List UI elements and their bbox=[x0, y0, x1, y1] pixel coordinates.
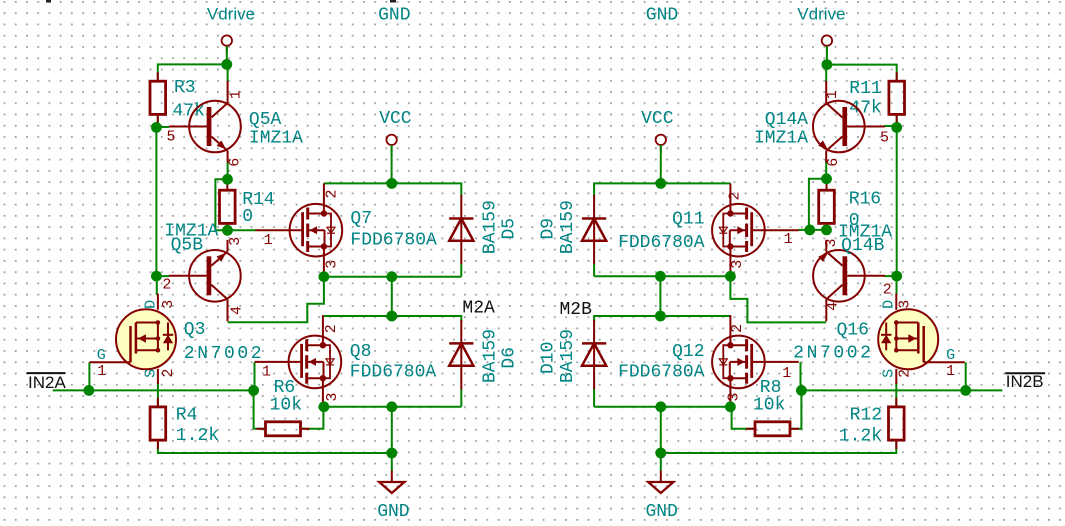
svg-text:Q14A: Q14A bbox=[765, 110, 808, 130]
wire IN2A junction up to Q8 gate bbox=[254, 362, 256, 390]
junction IN2A/Q8 gate/R6 bbox=[248, 385, 259, 396]
svg-text:3: 3 bbox=[726, 392, 743, 401]
svg-text:D6: D6 bbox=[500, 347, 520, 369]
net label M2B bbox=[560, 300, 593, 320]
junction J6' VCC node bbox=[655, 178, 666, 189]
svg-text:1: 1 bbox=[97, 363, 106, 380]
junction J6 VCC node bbox=[386, 178, 397, 189]
wire Vdrive to node J1 bbox=[226, 46, 228, 64]
ground symbol (left) bbox=[377, 471, 409, 523]
mosfet Q7 (FDD6780A) bbox=[256, 183, 437, 276]
svg-text:FDD6780A: FDD6780A bbox=[618, 363, 705, 383]
svg-text:2: 2 bbox=[162, 277, 171, 294]
junction GND node (right) bbox=[655, 448, 666, 459]
junction J4b' R16 bottom/Q14B emitter bbox=[821, 225, 832, 236]
svg-text:3: 3 bbox=[324, 260, 341, 269]
svg-text:Q14B: Q14B bbox=[841, 236, 884, 256]
power port VCC (left) bbox=[379, 109, 412, 152]
mosfet Q12 (FDD6780A) bbox=[618, 315, 799, 408]
svg-text:1: 1 bbox=[782, 365, 791, 382]
wire VCC right to node J6' bbox=[660, 145, 662, 183]
transistor Q5A bbox=[167, 81, 304, 167]
mosfet Q11 (FDD6780A) bbox=[618, 183, 799, 276]
resistor R14 bbox=[220, 181, 275, 232]
junction J5' rail/Q14B base bbox=[891, 271, 902, 282]
junction Q8 source row/GND drop bbox=[386, 401, 397, 412]
wire IN2A bbox=[53, 389, 254, 391]
svg-text:Q12: Q12 bbox=[672, 342, 704, 362]
wire jog Q7 source to Q5B collector bbox=[228, 277, 324, 323]
svg-text:4: 4 bbox=[229, 306, 246, 315]
svg-text:Q3: Q3 bbox=[184, 320, 206, 340]
wire VCC to node J6 bbox=[391, 145, 393, 183]
junction IN2B/Q16 gate bbox=[960, 385, 971, 396]
svg-text:1.2k: 1.2k bbox=[176, 426, 219, 446]
wire GND drop bbox=[391, 407, 393, 471]
svg-text:BA159: BA159 bbox=[480, 200, 500, 254]
svg-text:IN2B: IN2B bbox=[1006, 372, 1044, 391]
power port VCC (right) bbox=[641, 109, 674, 152]
net label M2A bbox=[462, 299, 495, 319]
diode D6 (BA159) bbox=[449, 320, 519, 389]
transistor Q14B bbox=[813, 223, 892, 322]
wire Q8 source row bbox=[324, 406, 461, 408]
wire J5' to Q14B base bbox=[884, 275, 897, 277]
svg-text:FDD6780A: FDD6780A bbox=[618, 233, 705, 253]
svg-text:6: 6 bbox=[825, 158, 842, 167]
wire R6 loop right bbox=[300, 407, 323, 429]
svg-text:M2A: M2A bbox=[462, 299, 495, 319]
svg-text:1: 1 bbox=[824, 90, 841, 99]
svg-text:10k: 10k bbox=[753, 396, 785, 416]
wire J5 to Q5B base bbox=[156, 275, 169, 277]
svg-text:S: S bbox=[881, 369, 898, 378]
mosfet Q8 (FDD6780A) bbox=[255, 315, 437, 408]
svg-text:G: G bbox=[946, 347, 955, 364]
wire J8' down to M2B row bbox=[659, 276, 661, 316]
wire Q7 drain to D5 (top rail) bbox=[324, 183, 461, 196]
resistor R11 bbox=[849, 72, 904, 123]
junction M2B node bbox=[655, 311, 666, 322]
junction J7' Q11 source bbox=[725, 271, 736, 282]
diode D5 (BA159) bbox=[449, 195, 519, 264]
wire jog Q11 source to Q14B collector bbox=[730, 276, 826, 322]
wire Q16 gate drop bbox=[965, 362, 967, 390]
resistor R16 bbox=[819, 181, 881, 232]
svg-text:GND: GND bbox=[378, 5, 410, 25]
wire bottom rail R4 to GND node bbox=[158, 440, 392, 453]
wire J8 down to M2A row bbox=[391, 277, 393, 316]
junction J1 Vdrive node bbox=[221, 59, 232, 70]
svg-text:R16: R16 bbox=[849, 190, 881, 210]
resistor R4 bbox=[150, 398, 219, 449]
svg-text:3: 3 bbox=[160, 300, 177, 309]
wire D6 bottom to Q8 source row bbox=[460, 389, 462, 407]
wire J2' to Q14A base bbox=[884, 125, 897, 127]
junction IN2A/Q3 gate bbox=[84, 385, 95, 396]
svg-text:2: 2 bbox=[897, 369, 914, 378]
junction J5 rail/Q5B base bbox=[151, 271, 162, 282]
svg-text:1: 1 bbox=[228, 90, 245, 99]
wire D5 bottom to bottom rail bbox=[460, 264, 462, 277]
svg-text:D: D bbox=[881, 300, 898, 309]
junction M2A node bbox=[386, 311, 397, 322]
svg-text:VCC: VCC bbox=[641, 109, 674, 129]
svg-text:FDD6780A: FDD6780A bbox=[350, 231, 437, 251]
wire J4 to Q7 gate bbox=[228, 229, 257, 231]
svg-text:R12: R12 bbox=[850, 406, 882, 426]
wire D9 bottom to bottom rail bbox=[593, 264, 595, 277]
resistor R3 bbox=[150, 72, 205, 123]
svg-text:2: 2 bbox=[729, 324, 746, 333]
wire D10 bottom to Q12 source row bbox=[593, 389, 595, 407]
junction GND node (left) bbox=[386, 448, 397, 459]
junction J8 top of M2A drop bbox=[386, 271, 397, 282]
svg-text:BA159: BA159 bbox=[558, 200, 578, 254]
svg-text:0: 0 bbox=[242, 207, 253, 227]
svg-text:S: S bbox=[142, 369, 159, 378]
svg-text:Q7: Q7 bbox=[350, 209, 372, 229]
svg-text:R4: R4 bbox=[176, 406, 198, 426]
svg-text:Q8: Q8 bbox=[350, 342, 372, 362]
wire J4' row to Q11 gate bbox=[799, 229, 810, 231]
wire R8 loop left bbox=[732, 407, 755, 429]
junction J3' Q14A emitter/R16 bbox=[821, 173, 832, 184]
wire Q12 source row bbox=[594, 406, 730, 408]
svg-text:Q5B: Q5B bbox=[171, 236, 204, 256]
wire Q5A collector to J1 bbox=[227, 64, 229, 82]
wire bypass around R16 bbox=[809, 179, 827, 230]
clipped text artifact top-left bbox=[46, 0, 51, 3]
junction J4a' bypass/Q11 gate bbox=[804, 225, 815, 236]
svg-text:2N7002: 2N7002 bbox=[184, 344, 264, 364]
svg-text:FDD6780A: FDD6780A bbox=[350, 363, 437, 383]
svg-text:10k: 10k bbox=[270, 396, 302, 416]
power port Vdrive (left) bbox=[207, 5, 255, 53]
svg-text:IMZ1A: IMZ1A bbox=[754, 129, 808, 149]
svg-text:2: 2 bbox=[160, 368, 177, 377]
svg-text:5: 5 bbox=[167, 129, 176, 146]
wire R3 bottom to node J2 bbox=[157, 115, 159, 128]
resistor R12 bbox=[839, 398, 904, 449]
wire bypass around R14 bbox=[215, 179, 227, 230]
net label IN2A bbox=[27, 373, 67, 392]
junction Q12 source row/GND drop bbox=[655, 401, 666, 412]
junction J8' top of M2B drop bbox=[655, 271, 666, 282]
svg-text:VCC: VCC bbox=[379, 109, 412, 129]
svg-text:M2B: M2B bbox=[560, 300, 593, 320]
transistor Q16 (2N7002) bbox=[793, 294, 965, 385]
svg-text:GND: GND bbox=[646, 5, 678, 25]
ground symbol (right) bbox=[645, 471, 677, 523]
svg-text:Q5A: Q5A bbox=[249, 110, 282, 130]
resistor R6 bbox=[257, 378, 310, 436]
svg-text:BA159: BA159 bbox=[480, 329, 500, 383]
svg-text:BA159: BA159 bbox=[558, 329, 578, 383]
wire J1 to R3 top bbox=[158, 64, 227, 81]
junction J7 Q7 source bbox=[319, 271, 330, 282]
wire Q3 source to R4 bbox=[157, 383, 159, 407]
wire R8 loop right bbox=[789, 390, 801, 428]
wire Vdrive right to node J1' bbox=[826, 46, 828, 65]
svg-text:3: 3 bbox=[897, 300, 914, 309]
wire J1' to R11 top bbox=[827, 65, 897, 82]
clipped text artifact top-middle bbox=[390, 0, 396, 3]
svg-text:2N7002: 2N7002 bbox=[793, 344, 873, 364]
svg-text:IN2A: IN2A bbox=[28, 373, 66, 392]
wire J5' to Q16 drain bbox=[896, 276, 898, 295]
junction IN2B/Q12 gate/R8 bbox=[796, 385, 807, 396]
transistor Q14A bbox=[754, 81, 889, 167]
svg-text:3: 3 bbox=[227, 237, 244, 246]
svg-text:47k: 47k bbox=[849, 99, 881, 119]
svg-text:5: 5 bbox=[880, 130, 889, 147]
diode D9 (BA159) bbox=[539, 195, 607, 264]
junction Q8 source node bbox=[319, 401, 330, 412]
svg-text:D5: D5 bbox=[500, 218, 520, 240]
transistor Q5B bbox=[162, 222, 245, 322]
svg-text:1: 1 bbox=[262, 364, 271, 381]
svg-text:GND: GND bbox=[377, 502, 409, 522]
svg-text:Q16: Q16 bbox=[836, 321, 868, 341]
svg-text:2: 2 bbox=[323, 324, 340, 333]
power port GND top (right, symbol off-sheet) bbox=[646, 5, 678, 25]
wire R11 bottom to node J2' bbox=[896, 115, 898, 128]
junction J2 R3/Q5A base bbox=[151, 122, 162, 133]
wire Q14A emitter to J3' bbox=[825, 161, 827, 179]
transistor Q3 (2N7002) bbox=[89, 294, 264, 385]
svg-text:2: 2 bbox=[324, 189, 341, 198]
wire Q16 source to R12 bbox=[895, 383, 897, 407]
wire Q11 drain to D9 (top rail) bbox=[594, 183, 730, 196]
wire Q5A emitter to J3 bbox=[227, 161, 229, 179]
wire GND drop (right) bbox=[660, 407, 662, 471]
wire Q7 source row bbox=[324, 276, 461, 278]
svg-text:1: 1 bbox=[784, 231, 793, 248]
svg-text:GND: GND bbox=[645, 502, 677, 522]
wire J2 to Q5A base bbox=[156, 126, 169, 128]
svg-text:4: 4 bbox=[825, 302, 842, 311]
power port GND top (left, symbol off-sheet) bbox=[378, 5, 410, 25]
wire right rail J2' to J5' bbox=[896, 127, 898, 276]
svg-text:D9: D9 bbox=[539, 218, 559, 240]
svg-text:2: 2 bbox=[727, 191, 744, 200]
svg-text:D10: D10 bbox=[539, 342, 559, 374]
power port Vdrive (right) bbox=[797, 5, 845, 53]
wire J5 to Q3 drain bbox=[156, 276, 158, 295]
net label IN2B bbox=[1005, 372, 1045, 391]
wire M2B row bbox=[594, 316, 730, 322]
wire M2A row bbox=[324, 316, 461, 322]
svg-text:R3: R3 bbox=[174, 78, 196, 98]
svg-text:R11: R11 bbox=[849, 79, 881, 99]
wire bottom rail GND node to R12 bbox=[661, 440, 897, 453]
junction J1' Vdrive node bbox=[822, 59, 833, 70]
svg-text:IMZ1A: IMZ1A bbox=[249, 129, 303, 149]
svg-text:3: 3 bbox=[324, 392, 341, 401]
svg-text:1: 1 bbox=[946, 363, 955, 380]
wire Q11 source row bbox=[594, 275, 730, 277]
junction J3 Q5A emitter/R14 bbox=[222, 174, 233, 185]
svg-text:G: G bbox=[97, 347, 106, 364]
svg-text:1.2k: 1.2k bbox=[839, 427, 882, 447]
svg-text:2: 2 bbox=[883, 282, 892, 299]
svg-text:6: 6 bbox=[227, 158, 244, 167]
svg-text:Vdrive: Vdrive bbox=[797, 5, 845, 24]
junction J4 R14 bottom/Q5B emitter bbox=[222, 225, 233, 236]
svg-text:D: D bbox=[143, 300, 160, 309]
diode D10 (BA159) bbox=[539, 320, 607, 389]
svg-text:Q11: Q11 bbox=[672, 210, 704, 230]
wire Q14A collector to J1' bbox=[825, 65, 827, 82]
svg-text:3: 3 bbox=[729, 260, 746, 269]
junction Q12 source node bbox=[725, 401, 736, 412]
wire IN2B junction up to Q12 gate bbox=[800, 362, 802, 390]
wire Q3 gate drop bbox=[88, 362, 90, 390]
junction J2' R11/Q14A base bbox=[891, 122, 902, 133]
wire R6 loop left bbox=[254, 390, 266, 428]
resistor R8 bbox=[746, 378, 799, 436]
wire IN2B bbox=[801, 389, 1002, 391]
svg-text:1: 1 bbox=[264, 232, 273, 249]
svg-text:Vdrive: Vdrive bbox=[207, 5, 255, 24]
wire left rail J2 to J5 bbox=[155, 127, 157, 276]
